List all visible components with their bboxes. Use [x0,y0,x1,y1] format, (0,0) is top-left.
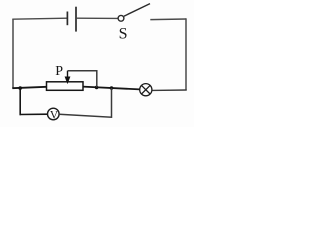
rheostat wiper arrow [66,71,70,83]
lamp cross [142,85,151,94]
wire left to rheostat [12,87,46,88]
switch S pivot circle [118,15,124,21]
node wiper junction [95,86,99,90]
wire switch to top right corner [150,18,186,21]
rheostat P body [47,82,84,91]
battery long plate [75,7,77,32]
wire bottom branch vertical [19,88,21,115]
lamp circle [140,84,152,96]
wire battery to switch [77,17,118,19]
node bottom branch junction [18,86,22,90]
wire rheostat to lamp [83,87,140,90]
wire voltmeter to right riser [59,88,111,117]
switch S lever [124,4,150,17]
voltmeter circle [48,108,60,120]
node voltmeter right junction [110,86,114,90]
wire bottom branch to voltmeter [20,113,48,115]
svg-text:V: V [50,109,59,121]
rheostat wiper wire [68,71,97,88]
wire left vertical [12,19,14,88]
svg-text:P: P [55,64,63,79]
wire lamp to right corner [152,89,187,91]
battery short plate [66,12,68,26]
wire right vertical [185,18,187,90]
svg-text:S: S [119,26,128,43]
wire top left horizontal [12,18,67,19]
